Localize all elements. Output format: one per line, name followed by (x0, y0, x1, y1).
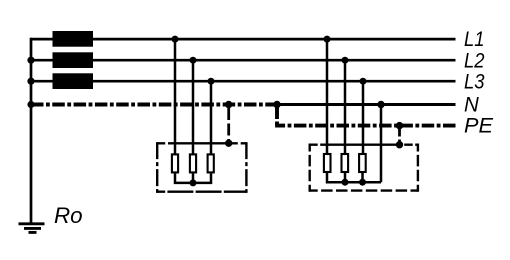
wire load2 L3 drop (362, 81, 365, 153)
wire PEN to load1 enclosure (dashed) (227, 108, 230, 141)
wire load1 L2 drop (192, 60, 195, 154)
wire L3 line (31, 80, 456, 83)
impedance Z2 (source winding L2) (53, 52, 94, 68)
wire L1 line (31, 38, 456, 41)
svg-text:N: N (464, 94, 480, 117)
svg-text:L3: L3 (464, 70, 485, 93)
node load1 enclosure bond (225, 140, 232, 147)
svg-text:Ro: Ro (54, 203, 83, 228)
wire left source rail (30, 38, 33, 223)
load2 enclosure box (dashed) (310, 144, 418, 192)
wire L2 line (31, 59, 456, 62)
node L1 tap load2 (324, 36, 331, 43)
node rail-PEN junction (27, 101, 34, 108)
node L3 tap load1 (208, 78, 215, 85)
node L3 tap load2 (360, 78, 367, 85)
node load2 star R2 junction (342, 179, 349, 186)
wire PE line (dash-dot) (275, 107, 279, 126)
svg-text:PE: PE (464, 115, 494, 138)
load1 enclosure box (dashed) (157, 142, 246, 193)
wire N drop to load2 star (380, 105, 383, 183)
wire load2 L2 drop (344, 60, 347, 153)
node load1 star junction (190, 179, 197, 186)
impedance Z3 (source winding L3) (53, 73, 94, 89)
wire load2 star point (327, 173, 381, 182)
node rail-L3 junction (27, 78, 34, 85)
node L2 tap load2 (342, 57, 349, 64)
wire load1 L3 drop (210, 81, 213, 154)
resistor load2 R1 (324, 154, 331, 172)
node load2 enclosure bond (396, 141, 403, 148)
svg-text:L2: L2 (464, 49, 485, 72)
node L1 tap load1 (172, 36, 179, 43)
resistor load2 R2 (342, 154, 349, 172)
resistor load1 R2 (190, 154, 196, 172)
ground (19, 224, 45, 233)
node rail-L2 junction (27, 57, 34, 64)
node PE tap load2 (396, 122, 403, 129)
node N tap load2 (377, 101, 384, 108)
wire PE to load2 enclosure (dashed) (398, 128, 401, 142)
node PEN tap load1 (225, 101, 232, 108)
node load2 star R3 junction (359, 179, 366, 186)
node L2 tap load1 (190, 57, 197, 64)
wire N line (solid) (276, 103, 456, 106)
resistor load1 R1 (172, 154, 178, 172)
wire load1 star point (175, 173, 211, 183)
wire load2 L1 drop (326, 39, 329, 154)
svg-text:L1: L1 (464, 28, 485, 51)
wire PEN conductor (dash-dot) (31, 103, 277, 107)
impedance Z1 (source winding L1) (53, 31, 94, 47)
wire load1 L1 drop (174, 39, 177, 154)
node PEN split junction (273, 101, 280, 108)
resistor load2 R3 (359, 154, 366, 172)
resistor load1 R3 (208, 154, 214, 172)
